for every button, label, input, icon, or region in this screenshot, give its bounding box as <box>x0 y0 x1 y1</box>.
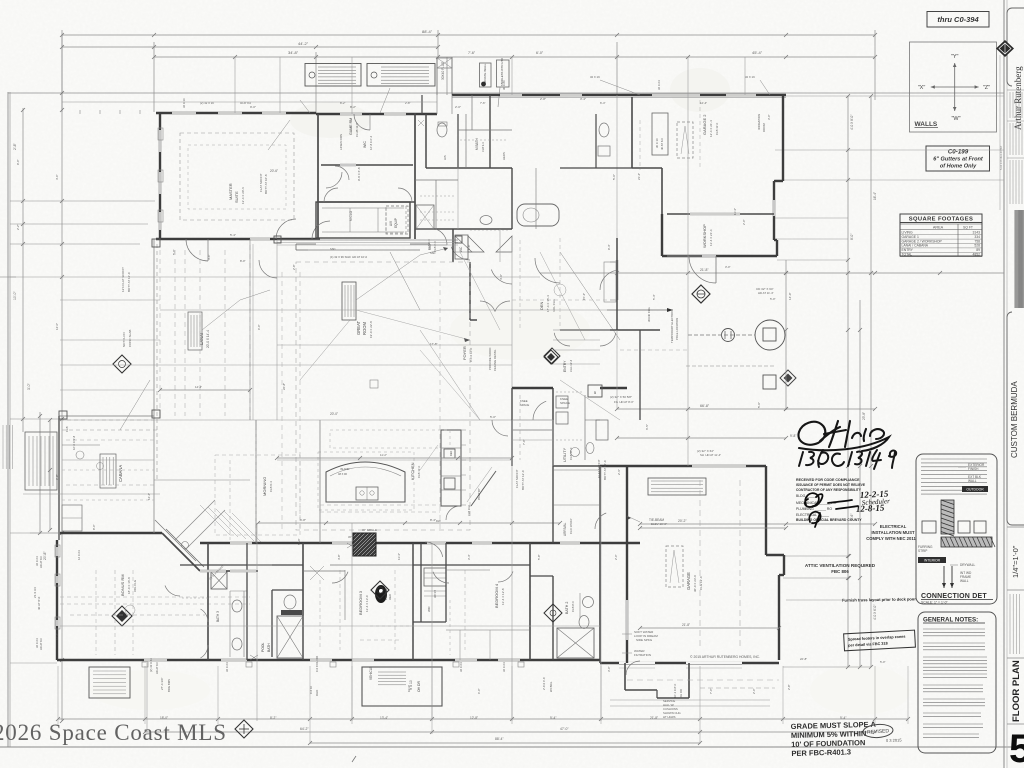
crossing vertical x512 upper <box>511 57 513 95</box>
entry step lines <box>512 429 553 431</box>
provide O&O stamp <box>375 585 387 603</box>
svg-text:FLOOR PLAN: FLOOR PLAN <box>1011 660 1022 722</box>
svg-text:30'-0 X 23'-0: 30'-0 X 23'-0 <box>693 575 697 592</box>
bedroom4 right wall <box>529 543 531 660</box>
crossing vertical x688 upper <box>687 57 689 273</box>
svg-text:(2) 32" X 50 5/8": (2) 32" X 50 5/8" <box>610 395 632 399</box>
svg-text:W2 BRG: W2 BRG <box>549 682 553 692</box>
svg-text:20'-0": 20'-0" <box>330 412 338 416</box>
svg-text:INTERIOR: INTERIOR <box>924 559 941 563</box>
svg-text:SQUARE FOOTAGES: SQUARE FOOTAGES <box>909 217 974 223</box>
svg-text:FOYER: FOYER <box>462 346 467 360</box>
great room mid dim line <box>277 457 512 459</box>
master suite bottom wall <box>156 238 320 240</box>
svg-text:30X40 CLG: 30X40 CLG <box>647 307 651 322</box>
garage dim 20-2 <box>640 527 786 529</box>
svg-text:BOTT AT 12'-0: BOTT AT 12'-0 <box>603 460 607 480</box>
pool deck lines bottom left <box>10 662 57 664</box>
connection detail box <box>916 454 997 604</box>
compass axis Y-W <box>954 63 956 111</box>
svg-text:Arthur Rutenberg: Arthur Rutenberg <box>1013 66 1023 130</box>
svg-text:8'-0": 8'-0" <box>92 524 96 530</box>
utility room walls <box>552 388 554 466</box>
svg-text:HD AT 8-0: HD AT 8-0 <box>39 556 43 568</box>
svg-text:3'-0": 3'-0" <box>767 114 771 120</box>
svg-text:16'-0 X 9'-8: 16'-0 X 9'-8 <box>72 435 76 450</box>
svg-text:13'-4 X 20'-6: 13'-4 X 20'-6 <box>241 187 245 204</box>
lanai edge double line <box>249 239 251 420</box>
leader polylines from notes <box>356 248 448 300</box>
right vertical dim x871 <box>870 96 872 667</box>
svg-text:HD AT 8-0: HD AT 8-0 <box>155 662 159 674</box>
bath2 toilet <box>579 616 589 629</box>
svg-text:11'-4": 11'-4" <box>397 553 401 560</box>
sheet bottom border <box>0 746 1024 748</box>
garage dim 21-8 <box>640 627 779 629</box>
svg-text:WC: WC <box>459 246 463 252</box>
svg-text:4'-8": 4'-8" <box>337 554 341 560</box>
svg-text:3'-0": 3'-0" <box>607 666 611 672</box>
morning dashed <box>229 460 231 540</box>
svg-text:5: 5 <box>1009 727 1024 768</box>
garage top wall <box>600 465 766 467</box>
svg-text:CLB 9'-0: CLB 9'-0 <box>427 239 431 250</box>
svg-text:A/V: A/V <box>389 220 393 226</box>
entry porch lines <box>553 329 617 331</box>
kitchen bottom wall <box>200 542 640 544</box>
svg-text:CLB 9-4: CLB 9-4 <box>481 142 485 152</box>
handwritten permit number 15DC13149 <box>799 450 896 469</box>
svg-text:BOTT AT 12'-0: BOTT AT 12'-0 <box>521 470 525 490</box>
connection detail hatched wall horizontal <box>941 537 992 547</box>
den ceiling fan <box>554 284 566 296</box>
general notes paragraph 4 <box>923 684 983 686</box>
great room long leader <box>420 350 480 420</box>
kitchen counters right <box>441 430 461 506</box>
ref box <box>444 449 455 458</box>
dimension line 88ft overall top <box>62 34 875 36</box>
pool bath walls <box>271 590 273 657</box>
svg-text:40 AT 8-0: 40 AT 8-0 <box>240 101 252 105</box>
general notes paragraph 2 <box>923 642 985 644</box>
bonus extra dashes <box>70 614 205 616</box>
svg-text:11'-4 X 12'-8: 11'-4 X 12'-8 <box>501 588 505 605</box>
svg-text:8'-0 X 12'-0: 8'-0 X 12'-0 <box>469 347 473 362</box>
his hers closet dashes <box>418 120 424 126</box>
bedroom3 wic walls <box>412 543 414 660</box>
permit stamp text block <box>796 478 866 522</box>
hall walls above bedrooms <box>180 564 303 566</box>
svg-text:SPACE: SPACE <box>560 401 570 405</box>
privacy wall box <box>480 63 492 87</box>
lanai long dashes <box>66 439 154 441</box>
bath3 vanity counter <box>243 591 245 657</box>
svg-text:DEN: DEN <box>539 301 544 310</box>
bottom dim line y732 <box>145 731 875 733</box>
crossing vertical x352 <box>351 523 353 721</box>
hall arcs near kitchen <box>446 506 460 520</box>
svg-text:GARAGE 1: GARAGE 1 <box>902 235 919 239</box>
svg-text:20'-0 X 14'-4: 20'-0 X 14'-4 <box>206 330 210 348</box>
lanai column squares <box>152 239 160 247</box>
dashed line garage side <box>686 365 775 367</box>
cased opening lines center <box>511 168 513 229</box>
svg-text:14'-4": 14'-4" <box>195 385 202 389</box>
svg-text:CONNECTION DET: CONNECTION DET <box>921 593 987 600</box>
note box prior to installation <box>367 64 435 87</box>
interior black label <box>918 557 946 563</box>
svg-text:7'-0": 7'-0" <box>709 688 713 694</box>
lanai horizontal crossings <box>60 299 160 301</box>
workshop left wall <box>661 214 663 256</box>
kitchen island arched counter <box>326 462 405 502</box>
svg-text:21 X 64: 21 X 64 <box>33 587 37 598</box>
pool bath shower X <box>277 616 303 658</box>
bbq hatched niche <box>353 533 376 556</box>
svg-text:COMPLY WITH NEC 2011: COMPLY WITH NEC 2011 <box>866 536 916 541</box>
svg-text:LANAI / CABANA: LANAI / CABANA <box>902 244 929 248</box>
great room col markers <box>274 236 281 243</box>
diamond marker bottom right yard <box>544 604 562 622</box>
garage2 floor dashes <box>639 120 641 170</box>
handwritten Office <box>798 421 889 451</box>
svg-text:AREA: AREA <box>933 226 944 230</box>
media av dashed <box>386 206 406 233</box>
den right wall <box>616 238 618 330</box>
svg-text:5'-0": 5'-0" <box>612 174 616 180</box>
wc box <box>455 235 468 259</box>
hall door arcs to bonus <box>201 609 209 622</box>
svg-text:8'-0": 8'-0" <box>850 234 854 240</box>
great room dashed verticals <box>281 272 283 530</box>
svg-text:FG HD AT 8'-0": FG HD AT 8'-0" <box>614 400 634 404</box>
master suite left wall <box>159 113 161 239</box>
title column revision box <box>1007 589 1024 591</box>
svg-text:9'-8": 9'-8" <box>790 434 796 438</box>
svg-text:4'-0 X 8'-0": 4'-0 X 8'-0" <box>850 115 854 130</box>
svg-text:9'-0": 9'-0" <box>16 159 20 165</box>
island sink <box>356 487 378 500</box>
svg-text:8'-2": 8'-2" <box>270 716 276 720</box>
svg-text:BUILDING OFFICIAL BREVARD COUN: BUILDING OFFICIAL BREVARD COUNTY <box>796 518 862 522</box>
svg-text:BEDROOM 4: BEDROOM 4 <box>494 583 499 608</box>
svg-text:34'-8": 34'-8" <box>288 50 299 55</box>
svg-text:"W": "W" <box>951 116 960 122</box>
den window seat <box>604 262 616 302</box>
svg-text:ARRIVAL: ARRIVAL <box>563 522 567 536</box>
svg-text:21'-8": 21'-8" <box>650 716 658 720</box>
svg-text:12'-4": 12'-4" <box>700 101 707 105</box>
garage apron dashes <box>627 679 779 681</box>
wic linen wall <box>321 164 413 166</box>
svg-text:M BATH: M BATH <box>475 137 479 150</box>
svg-text:SIDE SPKG: SIDE SPKG <box>636 638 653 642</box>
bath3 wall right <box>246 543 248 660</box>
svg-text:36" GRILLE: 36" GRILLE <box>362 528 377 532</box>
svg-text:ENTRY: ENTRY <box>902 248 914 252</box>
morning kitchen dividing lines <box>255 420 257 543</box>
svg-text:12'-4 X 21'-4: 12'-4 X 21'-4 <box>709 120 713 137</box>
svg-text:758: 758 <box>974 239 980 243</box>
svg-text:BOTT AT 10'-8: BOTT AT 10'-8 <box>264 174 268 194</box>
utility knee walls more <box>512 387 553 389</box>
top wall center-right <box>452 94 786 96</box>
connection detail small blocks <box>958 521 970 533</box>
svg-text:2026 Space Coast MLS: 2026 Space Coast MLS <box>0 720 227 745</box>
svg-text:SCALE: 1" = 1'-0": SCALE: 1" = 1'-0" <box>921 601 949 605</box>
svg-text:RECEIVED FOR CODE COMPLIANCE: RECEIVED FOR CODE COMPLIANCE <box>796 478 860 482</box>
spread footers tilted note box <box>844 630 916 651</box>
garage2 right wall jog <box>774 180 783 182</box>
lanai note box <box>188 312 202 350</box>
svg-text:10'-0": 10'-0" <box>407 685 411 692</box>
left dim line x40 <box>39 412 41 534</box>
svg-text:12'-8": 12'-8" <box>470 716 478 720</box>
right margin vertical x1000 <box>999 55 1001 210</box>
grade must slope note <box>791 720 878 758</box>
svg-text:6" Gutters at Front: 6" Gutters at Front <box>933 157 984 163</box>
wet bar sink <box>182 542 189 549</box>
cabana dim line <box>49 420 51 530</box>
assorted vertical reference lines <box>276 240 278 420</box>
general notes paragraph 3 <box>923 656 987 658</box>
septic diamond marker <box>692 285 710 303</box>
svg-text:21'-4": 21'-4" <box>637 173 641 180</box>
outdoor kitchen note box left <box>25 432 57 490</box>
svg-text:SH HD AT 11'-4": SH HD AT 11'-4" <box>700 453 721 457</box>
svg-text:ROOM: ROOM <box>762 123 766 132</box>
svg-text:BATH 2: BATH 2 <box>565 602 569 614</box>
service hall bump-out <box>624 663 626 690</box>
title column small box 2 <box>1007 120 1024 122</box>
svg-text:3'-4": 3'-4" <box>580 97 586 101</box>
crossing horizontals lanai band <box>60 389 154 391</box>
master closet arcs <box>324 188 338 202</box>
svg-text:0 3 2015: 0 3 2015 <box>886 737 903 743</box>
diamond marker garage right <box>371 581 389 599</box>
svg-text:5'-0": 5'-0" <box>757 402 761 408</box>
master door arcs <box>312 221 330 239</box>
bedroom dashed clg lines <box>339 570 341 650</box>
cabana left wall <box>58 416 60 540</box>
svg-text:88'-4": 88'-4" <box>495 737 504 741</box>
svg-text:OUTDOOR: OUTDOOR <box>966 488 984 492</box>
vanity sink oval <box>480 216 492 225</box>
electrical installation note <box>866 524 916 541</box>
island dashed clg <box>318 452 414 510</box>
master retreat walls <box>319 201 415 203</box>
bottom note box left <box>89 667 130 698</box>
svg-text:64'-2": 64'-2" <box>300 727 309 731</box>
general notes paragraph 8 <box>923 733 979 735</box>
svg-text:32 X 64: 32 X 64 <box>502 662 506 672</box>
bath3 shower X <box>211 572 227 589</box>
diamond marker center bottom <box>235 720 253 738</box>
stamp signature scribbles <box>805 493 858 527</box>
general notes paragraph 1 <box>923 628 985 630</box>
svg-text:2'-8": 2'-8" <box>540 97 546 101</box>
svg-text:FLAT SOFFIT: FLAT SOFFIT <box>515 469 519 488</box>
great room dashed ceiling <box>296 262 470 530</box>
svg-text:44'-2": 44'-2" <box>298 41 309 46</box>
svg-text:C0-199: C0-199 <box>948 149 969 156</box>
title column small box 3 <box>1007 157 1024 159</box>
dim line y524 <box>640 523 875 525</box>
utility counter <box>584 395 586 460</box>
crossing horizontal y420 left <box>60 419 200 421</box>
svg-text:WALL: WALL <box>960 579 969 583</box>
master tray ceiling dashed inner <box>188 145 286 209</box>
svg-text:11'-4 X 21'-4: 11'-4 X 21'-4 <box>709 229 713 246</box>
svg-text:KITCHEN: KITCHEN <box>410 462 415 480</box>
garage right bump dashes <box>700 687 775 689</box>
svg-text:88'-4": 88'-4" <box>422 29 433 34</box>
svg-text:11'-4": 11'-4" <box>733 208 737 215</box>
svg-text:8'-2": 8'-2" <box>350 105 356 109</box>
svg-text:POLE LOCATION: POLE LOCATION <box>675 318 679 340</box>
bonus ceiling fan <box>125 605 135 615</box>
svg-text:thru C0-394: thru C0-394 <box>937 15 979 24</box>
svg-text:5-10 X 8 OH-LD PKT: 5-10 X 8 OH-LD PKT <box>999 145 1003 170</box>
dashed soffit morning <box>255 430 257 540</box>
wall wic-bath <box>414 113 416 239</box>
general notes paragraph 5 <box>923 698 985 700</box>
chimney flue lines <box>436 57 438 95</box>
sheet number 5 box <box>1007 723 1024 725</box>
den upper window <box>616 260 618 300</box>
svg-text:89: 89 <box>976 248 980 252</box>
compass axis X-Z <box>931 86 979 88</box>
leader lines master top <box>380 88 390 113</box>
right dim extension lines <box>783 95 1004 97</box>
svg-text:17'-4 X 15'-4: 17'-4 X 15'-4 <box>546 295 550 312</box>
leader lines great room <box>390 252 420 310</box>
svg-text:4'-6": 4'-6" <box>55 174 59 180</box>
svg-text:2'-2": 2'-2" <box>16 224 20 230</box>
svg-text:BONUS RM: BONUS RM <box>120 574 125 596</box>
svg-text:CLB 11'-0: CLB 11'-0 <box>417 465 421 478</box>
morning dashed box <box>215 455 300 535</box>
svg-text:5'-4": 5'-4" <box>840 716 846 720</box>
hall dashes center <box>511 238 513 420</box>
extra dashes bedroom wing <box>370 625 410 627</box>
svg-text:12'-8 X 6'-2: 12'-8 X 6'-2 <box>369 135 373 150</box>
svg-text:2'-8": 2'-8" <box>405 101 411 105</box>
svg-text:6'-8": 6'-8" <box>467 244 471 250</box>
crossing horizontal y277 left <box>10 276 160 278</box>
svg-text:GENERAL NOTES:: GENERAL NOTES: <box>923 617 978 624</box>
svg-text:INSTALLATION MUST: INSTALLATION MUST <box>871 530 915 535</box>
svg-text:8'-0": 8'-0" <box>240 259 246 263</box>
general notes paragraph 6 <box>923 712 981 714</box>
dim line y409 <box>617 408 875 410</box>
svg-text:1/4"=1'-0": 1/4"=1'-0" <box>1011 545 1020 578</box>
svg-text:13'-4": 13'-4" <box>380 716 388 720</box>
morning bay windows <box>200 570 226 572</box>
svg-text:6'-0": 6'-0" <box>477 688 481 694</box>
svg-text:10'-0": 10'-0" <box>13 291 17 300</box>
garage right jog <box>766 554 784 556</box>
sheet left border <box>7 92 9 747</box>
assorted horizontal reference lines <box>160 276 540 278</box>
lanai dashed ceiling <box>60 419 154 421</box>
more leader lines great room <box>300 320 350 380</box>
arrival hall lines <box>553 504 600 506</box>
garage2 attic dashes <box>677 122 693 158</box>
bath3 sinks <box>232 600 242 612</box>
crossing horizontal y102 <box>62 101 437 103</box>
left wing window sills <box>55 545 60 557</box>
svg-text:SSD: SSD <box>430 251 435 255</box>
svg-text:9'-0": 9'-0" <box>250 105 256 109</box>
svg-text:GARAGE 2: GARAGE 2 <box>702 114 707 135</box>
svg-text:HT HGRS: HT HGRS <box>663 715 676 719</box>
svg-text:GAME RM: GAME RM <box>349 118 353 135</box>
pool bath toilet <box>284 595 296 609</box>
svg-text:FBC 806: FBC 806 <box>831 569 849 574</box>
lanai dim line <box>160 389 250 391</box>
svg-text:2'-8 X 6'-8: 2'-8 X 6'-8 <box>542 677 546 690</box>
workshop door arc <box>689 256 716 283</box>
svg-text:14'-4": 14'-4" <box>147 493 151 500</box>
linen center <box>424 568 446 586</box>
svg-text:ATTIC VENTILATION REQUIRED: ATTIC VENTILATION REQUIRED <box>805 563 876 568</box>
Arthur Rutenberg logo diamond <box>996 40 1014 57</box>
lanai edge line <box>153 239 155 533</box>
svg-text:ENTRY: ENTRY <box>563 360 567 372</box>
den entry dashes <box>519 240 521 330</box>
svg-text:16'-4": 16'-4" <box>873 192 877 200</box>
left dim line x62 <box>61 34 63 721</box>
svg-text:GARAGE 2 / WORKSHOP: GARAGE 2 / WORKSHOP <box>902 239 943 243</box>
svg-text:2'-0": 2'-0" <box>455 105 461 109</box>
vehicle court rect <box>362 667 442 706</box>
wet bar diagonal walls <box>162 533 200 571</box>
den bottom opening <box>560 329 617 331</box>
svg-text:CEILING DETAIL: CEILING DETAIL <box>493 349 497 371</box>
toilet fixture top <box>437 123 447 137</box>
svg-text:LINEN DRS: LINEN DRS <box>339 134 343 150</box>
walls compass box <box>910 42 997 132</box>
garage2 window box <box>652 113 668 155</box>
svg-text:20'-6": 20'-6" <box>270 169 278 173</box>
garage bottom wall <box>600 662 779 664</box>
crossing vertical x688 low <box>687 409 689 466</box>
hall dashed horizontals <box>320 504 440 506</box>
svg-text:CLB 9'-4: CLB 9'-4 <box>269 481 273 492</box>
svg-text:ISLAND: ISLAND <box>340 467 349 471</box>
svg-text:32 X 19: 32 X 19 <box>745 75 755 79</box>
svg-text:OHD: OHD <box>315 690 319 696</box>
svg-text:30 X 80: 30 X 80 <box>502 80 506 90</box>
master bottom door arc to lanai <box>186 239 208 261</box>
svg-text:20'-2": 20'-2" <box>678 519 687 523</box>
shower stall master <box>416 205 434 229</box>
svg-text:5'-0": 5'-0" <box>490 415 496 419</box>
svg-text:40 AT 8'-0: 40 AT 8'-0 <box>37 596 41 610</box>
hall closet doors bottom <box>310 566 324 580</box>
svg-text:BEDROOM 3: BEDROOM 3 <box>358 590 363 615</box>
svg-text:PROVIDE WOOD: PROVIDE WOOD <box>488 348 492 370</box>
svg-text:32 X 64: 32 X 64 <box>35 638 39 648</box>
general notes box <box>918 612 996 753</box>
svg-text:FINISH: FINISH <box>968 467 979 471</box>
cabana fixtures <box>62 444 100 446</box>
svg-text:15'-4": 15'-4" <box>582 293 586 300</box>
hall walls center <box>489 95 491 168</box>
window sill boxes bottom wall <box>142 662 148 667</box>
kitchen dashed soffit <box>330 430 450 448</box>
